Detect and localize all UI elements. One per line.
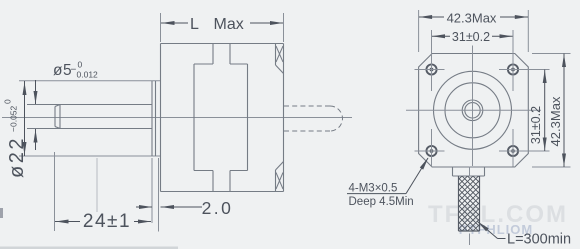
svg-text:31±0.2: 31±0.2: [452, 30, 490, 44]
svg-text:Deep 4.5Min: Deep 4.5Min: [349, 196, 414, 208]
svg-text:31±0.2: 31±0.2: [529, 106, 543, 144]
svg-text:0.012: 0.012: [77, 70, 99, 80]
svg-text:L: L: [190, 16, 199, 33]
svg-text:24±1: 24±1: [83, 211, 131, 232]
svg-text:Max: Max: [214, 16, 244, 33]
svg-text:2.0: 2.0: [202, 198, 234, 218]
svg-text:0: 0: [3, 99, 13, 104]
svg-text:0: 0: [78, 60, 83, 70]
svg-text:42.3Max: 42.3Max: [447, 10, 497, 25]
svg-text:L=300min: L=300min: [507, 232, 571, 248]
svg-text:ø22: ø22: [6, 136, 28, 178]
svg-text:4-M3×0.5: 4-M3×0.5: [349, 182, 398, 194]
svg-text:ø5: ø5: [53, 62, 72, 79]
svg-text:42.3Max: 42.3Max: [548, 96, 563, 146]
svg-text:−0.052: −0.052: [9, 105, 19, 132]
